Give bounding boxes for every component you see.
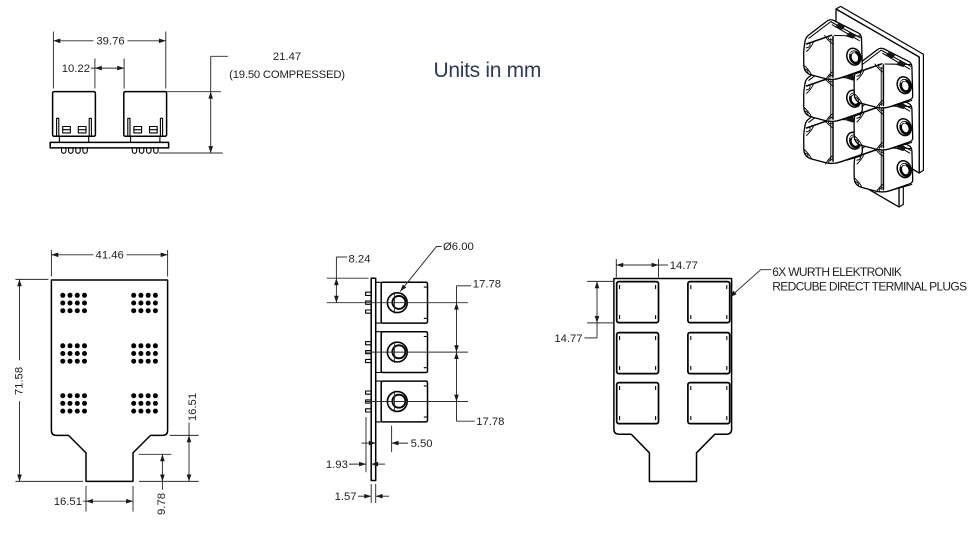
dim 1.57 lines: [358, 495, 371, 497]
view4 plug corner ticks: [690, 286, 692, 289]
svg-text:(19.50 COMPRESSED): (19.50 COMPRESSED): [229, 69, 345, 81]
dim 41.46 line: [51, 254, 93, 256]
iso cube: [854, 48, 913, 108]
iso cube: [804, 62, 863, 122]
view3 plug block: [376, 380, 382, 382]
dim 8.24 extension line: [327, 277, 369, 279]
view3 plug block: [376, 281, 382, 283]
dim 8.24 line: [335, 257, 337, 303]
dim 10.22 extension lines: [94, 59, 96, 89]
dim 21.47 extension lines: [167, 91, 221, 93]
iso pcb tab thickness edge: [899, 167, 903, 207]
svg-text:Units in mm: Units in mm: [434, 59, 542, 82]
iso cube: [854, 132, 913, 192]
svg-text:16.51: 16.51: [54, 496, 82, 508]
svg-text:17.78: 17.78: [476, 416, 504, 428]
view3 pcb edge: [371, 278, 376, 480]
view3 block corner ticks: [424, 336, 426, 338]
view2 pad grids: [60, 293, 65, 298]
view1 plug inner posts: [57, 118, 59, 136]
svg-text:5.50: 5.50: [411, 438, 433, 450]
view3 center lines: [327, 302, 468, 304]
dim 41.46 extension lines: [50, 250, 52, 277]
svg-text:14.77: 14.77: [554, 333, 582, 345]
view3 plug block: [376, 331, 382, 333]
view4 plug corner ticks: [619, 286, 621, 289]
dim 10.22 line: [91, 67, 124, 69]
view3 block corner ticks: [424, 385, 426, 387]
view3 pins: [366, 292, 372, 295]
dim 1.57 extension lines: [370, 484, 372, 503]
callout dia 6.00 leader: [400, 247, 441, 292]
svg-text:1.57: 1.57: [335, 491, 357, 503]
svg-text:6X WURTH ELEKTRONIK: 6X WURTH ELEKTRONIK: [772, 265, 902, 279]
iso pcb tab: [862, 148, 899, 207]
dim 17.78 top line: [456, 286, 458, 352]
view3 hole circles: [387, 342, 407, 362]
dim 16.51 right extension lines: [170, 434, 199, 436]
dim 5.50 extension line: [391, 426, 393, 452]
view1 plug neck: [130, 136, 132, 142]
svg-text:71.58: 71.58: [13, 367, 25, 395]
view1 plug contacts: [63, 127, 71, 133]
view1 plug inner posts: [128, 118, 130, 136]
dim 39.76 extension lines: [52, 32, 54, 89]
view3 center mark: [393, 341, 395, 363]
dim 21.47 line: [210, 56, 212, 153]
dim 5.50 lines: [362, 442, 376, 444]
svg-text:16.51: 16.51: [187, 393, 199, 421]
svg-text:41.46: 41.46: [96, 250, 124, 262]
svg-text:21.47: 21.47: [273, 51, 301, 63]
iso cube: [804, 104, 863, 164]
view4 plug corner ticks: [690, 387, 692, 390]
view4 plug outline: [617, 282, 659, 323]
view4 plug outline: [688, 383, 730, 424]
svg-text:9.78: 9.78: [156, 493, 168, 515]
dim 39.76 line: [53, 40, 93, 42]
view4 plug corner ticks: [619, 337, 621, 340]
svg-text:1.93: 1.93: [326, 459, 348, 471]
view1 plug contacts: [134, 127, 142, 133]
svg-text:Ø6.00: Ø6.00: [443, 241, 474, 253]
iso pcb board: [836, 9, 919, 173]
callout 6x leader: [730, 270, 771, 297]
iso cube: [804, 20, 863, 80]
view4 plug outline: [617, 383, 659, 424]
view3 hole circles: [387, 293, 407, 313]
dim 14.77 top extension lines: [615, 259, 617, 278]
view1 pcb strip: [50, 142, 168, 148]
dim 16.51 bottom extension lines: [85, 486, 87, 512]
view4 pcb outline: [614, 279, 732, 482]
svg-text:REDCUBE DIRECT TERMINAL PLUGS: REDCUBE DIRECT TERMINAL PLUGS: [772, 280, 967, 294]
view4 plug corner ticks: [690, 337, 692, 340]
view1 pins: [62, 148, 66, 153]
dim 9.78 extension line: [139, 453, 172, 455]
dim 9.78 line: [161, 454, 163, 490]
svg-text:10.22: 10.22: [62, 63, 90, 75]
dim 71.58 extension lines: [15, 278, 48, 280]
svg-text:8.24: 8.24: [349, 254, 371, 266]
dim 14.77 left extension lines: [587, 280, 614, 282]
dim 1.93 lines: [349, 463, 366, 465]
view1 plug body left: [53, 92, 96, 137]
view1 plug body right: [124, 92, 167, 137]
view1 plug neck: [58, 136, 60, 142]
view4 plug outline: [688, 333, 730, 374]
view4 plug corner ticks: [619, 387, 621, 390]
view3 hole circles: [387, 392, 407, 412]
view3 center mark: [393, 391, 395, 413]
dim 1.93 extension line: [365, 417, 367, 472]
dim 14.77 left line: [596, 281, 598, 338]
iso cube: [854, 90, 913, 150]
svg-text:39.76: 39.76: [96, 36, 124, 48]
dim 71.58 line: [19, 279, 21, 360]
dim 17.78 bottom line: [456, 352, 458, 421]
svg-text:17.78: 17.78: [473, 279, 501, 291]
dim 16.51 right line: [188, 423, 190, 482]
view2 pcb outline: [51, 280, 167, 481]
view3 block corner ticks: [424, 286, 426, 288]
view4 plug outline: [688, 282, 730, 323]
dim 16.51 bottom line: [83, 500, 133, 502]
svg-text:14.77: 14.77: [670, 260, 698, 272]
view3 center mark: [393, 292, 395, 314]
iso pcb board thickness edge: [836, 6, 923, 173]
view4 plug outline: [617, 333, 659, 374]
dim 14.77 top line: [616, 264, 658, 266]
